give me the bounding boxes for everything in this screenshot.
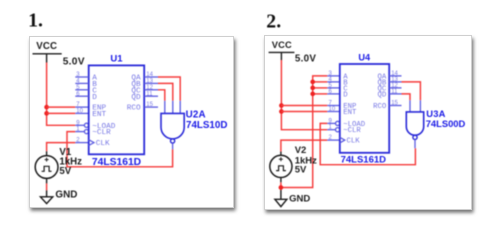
svg-text:12: 12 — [146, 85, 153, 91]
svg-text:5V: 5V — [295, 165, 307, 176]
svg-text:U2A: U2A — [186, 110, 206, 121]
svg-text:RCO: RCO — [373, 103, 387, 111]
svg-text:VCC: VCC — [272, 40, 292, 50]
svg-text:5.0V: 5.0V — [295, 54, 317, 65]
svg-text:VCC: VCC — [36, 41, 57, 52]
svg-text:ENT: ENT — [92, 111, 106, 119]
svg-text:~CLR: ~CLR — [92, 129, 111, 137]
svg-text:RCO: RCO — [127, 105, 141, 113]
svg-text:D: D — [92, 94, 97, 102]
svg-text:2.: 2. — [266, 11, 281, 33]
svg-text:D: D — [343, 91, 348, 99]
svg-text:15: 15 — [391, 101, 398, 107]
svg-text:15: 15 — [146, 102, 153, 108]
svg-text:74LS161D: 74LS161D — [92, 157, 141, 168]
svg-text:74LS161D: 74LS161D — [341, 155, 387, 166]
svg-text:GND: GND — [55, 190, 77, 201]
svg-text:U1: U1 — [110, 53, 123, 64]
svg-text:5V: 5V — [59, 166, 71, 177]
svg-text:U4: U4 — [358, 53, 371, 63]
svg-text:74LS10D: 74LS10D — [186, 120, 227, 131]
svg-text:GND: GND — [289, 193, 310, 204]
svg-text:QD: QD — [131, 94, 141, 102]
svg-text:1.: 1. — [28, 10, 43, 32]
svg-text:10: 10 — [76, 109, 83, 115]
svg-text:11: 11 — [391, 89, 398, 95]
svg-text:11: 11 — [146, 91, 153, 97]
svg-text:13: 13 — [146, 79, 153, 85]
svg-text:14: 14 — [146, 72, 153, 78]
svg-text:CLK: CLK — [96, 140, 110, 148]
svg-text:ENT: ENT — [343, 109, 357, 117]
svg-text:QD: QD — [378, 91, 387, 99]
svg-text:10: 10 — [329, 107, 336, 113]
svg-text:~CLR: ~CLR — [343, 127, 361, 135]
svg-text:74LS00D: 74LS00D — [426, 118, 466, 129]
svg-text:CLK: CLK — [347, 138, 361, 146]
svg-text:5.0V: 5.0V — [63, 57, 85, 68]
